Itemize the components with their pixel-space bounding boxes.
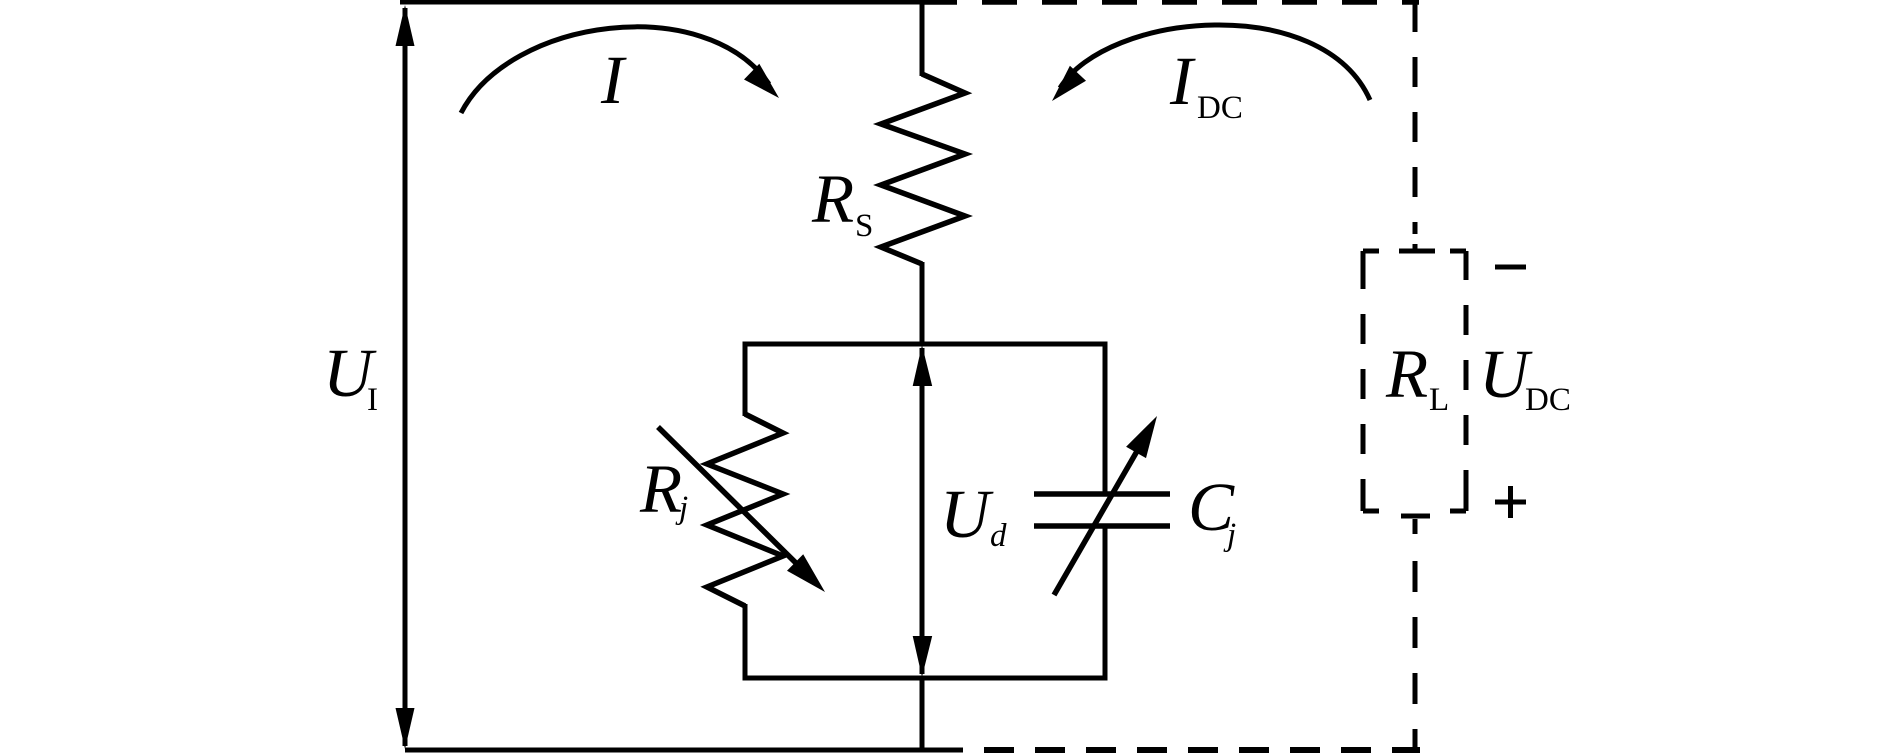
label U_DC (1479, 336, 1571, 418)
label R_S (811, 161, 873, 244)
wire top dashed (922, 0, 1419, 5)
current arrow I_DC (1052, 25, 1370, 101)
wire inner rect bottom (743, 676, 1108, 681)
wire right dashed upper (1413, 2, 1418, 251)
current arrow I (461, 27, 779, 113)
svg-text:I: I (367, 382, 378, 418)
svg-text:R: R (811, 161, 854, 237)
svg-text:R: R (639, 451, 682, 527)
svg-text:DC: DC (1525, 382, 1571, 418)
svg-text:U: U (940, 476, 994, 552)
resistor R_j zigzag (707, 414, 783, 606)
plus sign (1495, 486, 1526, 518)
wire right dashed lower (1413, 519, 1418, 750)
svg-text:DC: DC (1197, 90, 1243, 126)
wire bottom solid (405, 748, 963, 753)
wire top solid (400, 0, 924, 5)
arrow through C_j (1054, 416, 1157, 595)
svg-text:d: d (990, 518, 1007, 554)
wire inner rect right lower (1103, 526, 1108, 680)
wire inner rect left lower (743, 604, 748, 680)
capacitor C_j bottom plate (1034, 523, 1170, 529)
resistor R_L dashed box bottom (1363, 509, 1466, 514)
wire center bottom (920, 676, 925, 752)
svg-text:S: S (855, 208, 873, 244)
wire bottom dashed (984, 747, 1420, 753)
wire tick below R_L (1401, 514, 1430, 519)
svg-text:I: I (1169, 43, 1196, 119)
svg-text:L: L (1429, 382, 1449, 418)
label U_I (323, 335, 378, 418)
label I_DC (1169, 43, 1243, 126)
capacitor C_j top plate (1034, 491, 1170, 497)
resistor R_L dashed box left (1361, 251, 1366, 511)
label C_j (1188, 469, 1236, 553)
resistor R_S (881, 0, 965, 346)
voltage arrow U_I (396, 5, 415, 749)
label R_L (1385, 336, 1449, 418)
label U_d (940, 476, 1007, 554)
wire inner rect right upper (1103, 342, 1108, 494)
svg-text:I: I (600, 42, 627, 118)
resistor R_L dashed box top (1363, 249, 1466, 254)
wire inner rect left upper (743, 342, 748, 416)
svg-text:R: R (1385, 336, 1428, 412)
voltage arrow U_d (913, 345, 933, 677)
minus sign (1495, 265, 1526, 270)
wire inner rect top (743, 342, 1108, 347)
resistor R_L dashed box right (1464, 251, 1469, 511)
arrow through R_j (658, 427, 825, 592)
label R_j (639, 451, 688, 527)
